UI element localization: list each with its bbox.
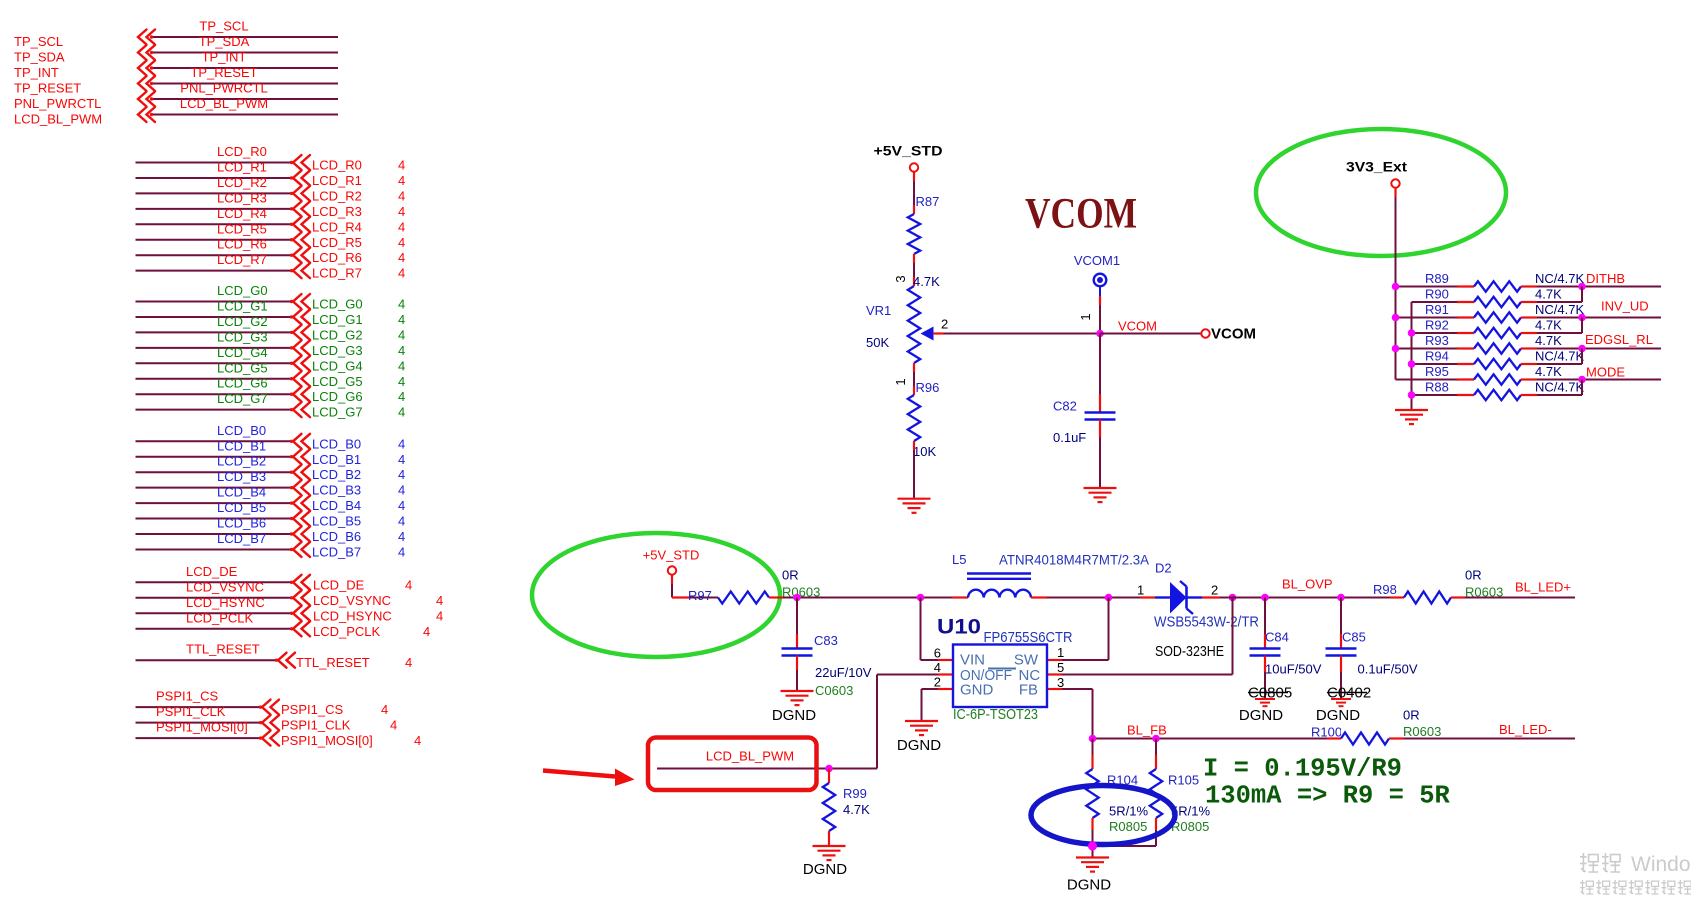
svg-text:4: 4 xyxy=(398,405,405,420)
svg-text:4: 4 xyxy=(423,624,430,639)
svg-text:2: 2 xyxy=(1211,583,1218,598)
svg-text:LCD_G3: LCD_G3 xyxy=(217,329,268,344)
svg-text:LCD_R1: LCD_R1 xyxy=(312,173,362,188)
svg-text:PSPI1_CLK: PSPI1_CLK xyxy=(156,704,226,719)
svg-text:BL_OVP: BL_OVP xyxy=(1282,577,1333,592)
svg-text:LCD_B2: LCD_B2 xyxy=(312,467,361,482)
svg-text:3: 3 xyxy=(1057,675,1064,690)
svg-text:LCD_R7: LCD_R7 xyxy=(312,266,362,281)
svg-text:LCD_B1: LCD_B1 xyxy=(312,452,361,467)
svg-text:1: 1 xyxy=(1078,313,1093,320)
svg-text:TP_SDA: TP_SDA xyxy=(14,50,65,65)
svg-text:LCD_G6: LCD_G6 xyxy=(217,376,268,391)
svg-text:GND: GND xyxy=(960,682,994,699)
svg-text:LCD_BL_PWM: LCD_BL_PWM xyxy=(14,112,102,127)
svg-text:LCD_BL_PWM: LCD_BL_PWM xyxy=(706,749,794,764)
svg-text:LCD_B7: LCD_B7 xyxy=(312,544,361,559)
svg-text:4: 4 xyxy=(398,297,405,312)
svg-text:DGND: DGND xyxy=(1239,707,1283,724)
svg-text:BL_LED+: BL_LED+ xyxy=(1515,580,1571,595)
svg-text:R0603: R0603 xyxy=(1403,724,1441,739)
svg-text:LCD_VSYNC: LCD_VSYNC xyxy=(186,579,264,594)
svg-text:4: 4 xyxy=(405,577,412,592)
svg-text:R90: R90 xyxy=(1425,287,1449,302)
svg-text:VCOM: VCOM xyxy=(1118,319,1157,334)
svg-text:NC/4.7K: NC/4.7K xyxy=(1535,349,1584,364)
svg-text:3V3_Ext: 3V3_Ext xyxy=(1346,159,1407,175)
svg-text:4: 4 xyxy=(398,250,405,265)
svg-text:LCD_G0: LCD_G0 xyxy=(217,283,268,298)
svg-text:LCD_DE: LCD_DE xyxy=(186,564,238,579)
svg-text:LCD_G3: LCD_G3 xyxy=(312,343,363,358)
svg-text:LCD_HSYNC: LCD_HSYNC xyxy=(313,608,392,623)
svg-text:1: 1 xyxy=(1057,645,1064,660)
svg-text:LCD_R0: LCD_R0 xyxy=(217,144,267,159)
svg-text:LCD_R4: LCD_R4 xyxy=(217,206,267,221)
svg-text:VCOM1: VCOM1 xyxy=(1074,253,1120,268)
svg-text:4: 4 xyxy=(398,173,405,188)
svg-text:4: 4 xyxy=(390,718,397,733)
svg-text:IC-6P-TSOT23: IC-6P-TSOT23 xyxy=(953,706,1038,723)
svg-text:LCD_G1: LCD_G1 xyxy=(217,298,268,313)
svg-text:TP_SCL: TP_SCL xyxy=(14,34,63,49)
svg-text:R89: R89 xyxy=(1425,271,1449,286)
svg-text:+5V_STD: +5V_STD xyxy=(643,548,700,563)
svg-text:4: 4 xyxy=(934,660,941,675)
svg-text:LCD_PCLK: LCD_PCLK xyxy=(313,624,381,639)
svg-text:DGND: DGND xyxy=(803,861,847,878)
svg-text:R98: R98 xyxy=(1373,582,1397,597)
svg-text:LCD_R2: LCD_R2 xyxy=(312,188,362,203)
svg-text:FB: FB xyxy=(1019,682,1038,699)
svg-text:LCD_G7: LCD_G7 xyxy=(217,391,268,406)
svg-text:R97: R97 xyxy=(688,588,712,603)
svg-text:LCD_DE: LCD_DE xyxy=(313,577,365,592)
svg-text:R96: R96 xyxy=(916,380,940,395)
svg-text:TP_SCL: TP_SCL xyxy=(199,19,248,34)
svg-text:LCD_G7: LCD_G7 xyxy=(312,405,363,420)
svg-text:PSPI1_MOSI[0]: PSPI1_MOSI[0] xyxy=(281,733,373,748)
svg-text:LCD_G1: LCD_G1 xyxy=(312,312,363,327)
svg-text:LCD_R5: LCD_R5 xyxy=(217,221,267,236)
svg-text:1: 1 xyxy=(893,378,908,385)
svg-text:R92: R92 xyxy=(1425,318,1449,333)
svg-text:4.7K: 4.7K xyxy=(1535,318,1562,333)
svg-text:R93: R93 xyxy=(1425,333,1449,348)
svg-text:0R: 0R xyxy=(1403,708,1420,723)
svg-text:4: 4 xyxy=(381,702,388,717)
svg-text:LCD_G4: LCD_G4 xyxy=(217,345,268,360)
svg-text:DITHB: DITHB xyxy=(1586,271,1625,286)
svg-text:LCD_R3: LCD_R3 xyxy=(312,204,362,219)
svg-text:PSPI1_CS: PSPI1_CS xyxy=(156,689,218,704)
svg-text:C82: C82 xyxy=(1053,399,1077,414)
svg-text:LCD_R6: LCD_R6 xyxy=(217,237,267,252)
svg-text:PSPI1_CS: PSPI1_CS xyxy=(281,702,343,717)
svg-text:LCD_R5: LCD_R5 xyxy=(312,235,362,250)
svg-text:50K: 50K xyxy=(866,335,889,350)
svg-text:VCOM: VCOM xyxy=(1025,191,1137,238)
svg-text:4.7K: 4.7K xyxy=(843,802,870,817)
svg-text:Windo: Windo xyxy=(1631,853,1691,876)
svg-text:R95: R95 xyxy=(1425,364,1449,379)
svg-text:LCD_B4: LCD_B4 xyxy=(312,498,361,513)
svg-text:4: 4 xyxy=(398,529,405,544)
svg-text:6: 6 xyxy=(934,646,941,661)
svg-text:5R/1%: 5R/1% xyxy=(1109,804,1148,819)
svg-text:SOD-323HE: SOD-323HE xyxy=(1155,643,1224,660)
svg-text:LCD_B6: LCD_B6 xyxy=(312,529,361,544)
svg-text:LCD_G6: LCD_G6 xyxy=(312,389,363,404)
svg-text:4: 4 xyxy=(398,436,405,451)
svg-text:3: 3 xyxy=(893,275,908,282)
svg-text:0R: 0R xyxy=(782,568,799,583)
svg-text:TTL_RESET: TTL_RESET xyxy=(186,642,260,657)
svg-text:VIN: VIN xyxy=(960,652,985,669)
svg-text:LCD_PCLK: LCD_PCLK xyxy=(186,610,254,625)
svg-text:INV_UD: INV_UD xyxy=(1601,299,1649,314)
svg-text:4: 4 xyxy=(398,358,405,373)
svg-text:R87: R87 xyxy=(916,194,940,209)
svg-text:2: 2 xyxy=(934,675,941,690)
svg-text:BL_LED-: BL_LED- xyxy=(1499,722,1552,737)
svg-text:LCD_HSYNC: LCD_HSYNC xyxy=(186,595,265,610)
svg-text:4: 4 xyxy=(398,374,405,389)
svg-text:R0805: R0805 xyxy=(1171,819,1209,834)
svg-text:LCD_G4: LCD_G4 xyxy=(312,358,363,373)
svg-text:LCD_VSYNC: LCD_VSYNC xyxy=(313,593,391,608)
svg-text:4: 4 xyxy=(398,312,405,327)
svg-text:4: 4 xyxy=(398,204,405,219)
svg-text:R94: R94 xyxy=(1425,349,1449,364)
svg-text:TP_RESET: TP_RESET xyxy=(190,65,257,80)
svg-text:R105: R105 xyxy=(1168,773,1199,788)
svg-text:VCOM: VCOM xyxy=(1211,326,1256,343)
svg-text:LCD_B5: LCD_B5 xyxy=(217,500,266,515)
svg-text:TP_RESET: TP_RESET xyxy=(14,81,81,96)
svg-text:D2: D2 xyxy=(1155,561,1172,576)
svg-text:4: 4 xyxy=(398,327,405,342)
svg-text:LCD_R1: LCD_R1 xyxy=(217,159,267,174)
svg-text:DGND: DGND xyxy=(897,737,941,754)
svg-text:2: 2 xyxy=(941,317,948,332)
svg-text:10uF/50V: 10uF/50V xyxy=(1265,662,1322,677)
svg-text:SW: SW xyxy=(1014,652,1039,669)
svg-text:NC/4.7K: NC/4.7K xyxy=(1535,380,1584,395)
svg-text:LCD_R4: LCD_R4 xyxy=(312,219,362,234)
svg-text:NC/4.7K: NC/4.7K xyxy=(1535,302,1584,317)
svg-text:LCD_G5: LCD_G5 xyxy=(217,360,268,375)
svg-text:LCD_R2: LCD_R2 xyxy=(217,175,267,190)
svg-text:VR1: VR1 xyxy=(866,303,891,318)
svg-text:10K: 10K xyxy=(913,444,936,459)
svg-text:C85: C85 xyxy=(1342,630,1366,645)
svg-text:4: 4 xyxy=(414,733,421,748)
svg-text:LCD_B6: LCD_B6 xyxy=(217,516,266,531)
svg-text:R100: R100 xyxy=(1311,725,1342,740)
svg-text:R0603: R0603 xyxy=(1465,585,1503,600)
svg-text:L5: L5 xyxy=(952,552,966,567)
svg-text:22uF/10V: 22uF/10V xyxy=(815,665,872,680)
svg-text:LCD_B5: LCD_B5 xyxy=(312,514,361,529)
svg-text:4: 4 xyxy=(398,266,405,281)
svg-text:5: 5 xyxy=(1057,660,1064,675)
svg-text:LCD_B0: LCD_B0 xyxy=(217,423,266,438)
svg-text:C83: C83 xyxy=(814,633,838,648)
svg-text:0.1uF/50V: 0.1uF/50V xyxy=(1358,662,1418,677)
svg-text:C84: C84 xyxy=(1265,630,1289,645)
svg-text:130mA => R9 = 5R: 130mA => R9 = 5R xyxy=(1205,782,1451,811)
svg-text:MODE: MODE xyxy=(1586,365,1625,380)
svg-text:4: 4 xyxy=(398,483,405,498)
svg-text:R88: R88 xyxy=(1425,380,1449,395)
svg-text:0.1uF: 0.1uF xyxy=(1053,430,1086,445)
svg-text:4: 4 xyxy=(398,514,405,529)
svg-text:4: 4 xyxy=(398,452,405,467)
svg-text:LCD_R7: LCD_R7 xyxy=(217,252,267,267)
svg-text:PNL_PWRCTL: PNL_PWRCTL xyxy=(180,81,267,96)
svg-text:LCD_B0: LCD_B0 xyxy=(312,436,361,451)
svg-text:LCD_G2: LCD_G2 xyxy=(312,327,363,342)
svg-text:4: 4 xyxy=(398,544,405,559)
svg-text:R0805: R0805 xyxy=(1109,819,1147,834)
svg-text:LCD_B4: LCD_B4 xyxy=(217,485,266,500)
svg-text:4.7K: 4.7K xyxy=(1535,333,1562,348)
svg-text:LCD_R3: LCD_R3 xyxy=(217,190,267,205)
svg-text:4: 4 xyxy=(405,655,412,670)
svg-text:FP6755S6CTR: FP6755S6CTR xyxy=(984,629,1073,646)
svg-text:+5V_STD: +5V_STD xyxy=(874,143,943,159)
svg-text:4: 4 xyxy=(398,235,405,250)
svg-text:LCD_B7: LCD_B7 xyxy=(217,531,266,546)
svg-text:LCD_B3: LCD_B3 xyxy=(312,483,361,498)
svg-text:4: 4 xyxy=(398,389,405,404)
svg-text:4.7K: 4.7K xyxy=(913,274,940,289)
svg-text:PSPI1_MOSI[0]: PSPI1_MOSI[0] xyxy=(156,720,248,735)
svg-text:LCD_R0: LCD_R0 xyxy=(312,158,362,173)
svg-text:TP_SDA: TP_SDA xyxy=(199,34,250,49)
svg-text:R99: R99 xyxy=(843,786,867,801)
svg-text:LCD_G2: LCD_G2 xyxy=(217,314,268,329)
svg-text:4: 4 xyxy=(436,593,443,608)
svg-text:4: 4 xyxy=(398,188,405,203)
svg-text:NC/4.7K: NC/4.7K xyxy=(1535,271,1584,286)
svg-text:DGND: DGND xyxy=(772,707,816,724)
svg-text:TTL_RESET: TTL_RESET xyxy=(296,655,370,670)
svg-text:LCD_G0: LCD_G0 xyxy=(312,297,363,312)
svg-text:4: 4 xyxy=(398,343,405,358)
svg-text:1: 1 xyxy=(1137,583,1144,598)
svg-text:DGND: DGND xyxy=(1316,707,1360,724)
svg-text:BL_FB: BL_FB xyxy=(1127,723,1167,738)
svg-text:LCD_G5: LCD_G5 xyxy=(312,374,363,389)
svg-text:C0603: C0603 xyxy=(815,683,853,698)
svg-text:0R: 0R xyxy=(1465,568,1482,583)
svg-text:4: 4 xyxy=(398,158,405,173)
svg-text:TP_INT: TP_INT xyxy=(202,50,247,65)
svg-text:PSPI1_CLK: PSPI1_CLK xyxy=(281,718,351,733)
svg-text:ATNR4018M4R7MT/2.3A: ATNR4018M4R7MT/2.3A xyxy=(999,552,1150,568)
svg-text:U10: U10 xyxy=(937,616,981,639)
svg-text:I = 0.195V/R9: I = 0.195V/R9 xyxy=(1203,755,1402,784)
svg-text:PNL_PWRCTL: PNL_PWRCTL xyxy=(14,96,101,111)
svg-text:EDGSL_RL: EDGSL_RL xyxy=(1585,332,1653,347)
svg-text:TP_INT: TP_INT xyxy=(14,65,59,80)
svg-text:LCD_B2: LCD_B2 xyxy=(217,454,266,469)
svg-text:DGND: DGND xyxy=(1067,877,1111,894)
svg-text:4: 4 xyxy=(398,467,405,482)
svg-text:LCD_R6: LCD_R6 xyxy=(312,250,362,265)
svg-text:4: 4 xyxy=(436,608,443,623)
svg-text:4.7K: 4.7K xyxy=(1535,364,1562,379)
svg-text:4: 4 xyxy=(398,498,405,513)
svg-text:4.7K: 4.7K xyxy=(1535,287,1562,302)
svg-text:4: 4 xyxy=(398,219,405,234)
svg-text:LCD_B1: LCD_B1 xyxy=(217,438,266,453)
svg-text:LCD_B3: LCD_B3 xyxy=(217,469,266,484)
svg-text:LCD_BL_PWM: LCD_BL_PWM xyxy=(180,96,268,111)
svg-text:WSB5543W-2/TR: WSB5543W-2/TR xyxy=(1154,614,1259,631)
svg-text:R91: R91 xyxy=(1425,302,1449,317)
